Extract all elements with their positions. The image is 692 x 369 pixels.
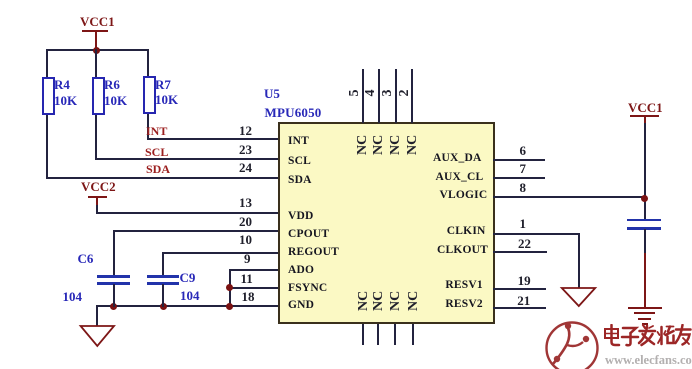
IC pin name REGOUT [288, 247, 339, 257]
node junction FSYNC [226, 284, 233, 291]
ground symbol right (triangle) [559, 286, 599, 310]
wire SDA to pin 24 [46, 177, 280, 179]
IC pin name CLKIN [447, 226, 486, 236]
pin number 18 [242, 292, 255, 302]
top pin 3 [395, 69, 397, 123]
IC U5 MPU6050 body [278, 122, 495, 324]
pin number 11 [241, 274, 253, 284]
node junction VLOGIC-VCC1 [641, 195, 648, 202]
glyph dian [612, 325, 620, 345]
IC pin name AUX_DA [433, 153, 481, 163]
IC pin name CLKOUT [437, 245, 488, 255]
pin number 23 [239, 145, 252, 155]
wire ADO pin 9 [229, 269, 279, 271]
resistor R4 [42, 77, 55, 115]
pin number 9 [244, 254, 251, 264]
capacitor C6 [97, 275, 130, 278]
wire CLKIN down to gnd [578, 233, 580, 288]
pin number 20 [239, 217, 252, 227]
value 104 (C6) [63, 291, 83, 302]
pin number 24 [239, 163, 252, 173]
wire bus top [46, 49, 150, 51]
pin number 22 [518, 239, 531, 249]
label R7 [155, 79, 171, 90]
top pin 2 [411, 69, 413, 123]
capacitor C right [627, 219, 662, 222]
pin number 21 [517, 296, 530, 306]
glyph fa [643, 325, 645, 328]
wire VCC1 right stem [644, 116, 646, 124]
watermark text chinese (drawn glyphs) [603, 324, 692, 351]
glyph zi [623, 328, 636, 333]
wire pin 19 stub [493, 288, 547, 290]
IC pin name RESV1 [445, 280, 482, 290]
pin label NC (top pin 3) [390, 135, 402, 155]
wire REGOUT pin 10 [162, 252, 279, 254]
value 10K (R6) [104, 95, 127, 106]
designator U5 [264, 88, 280, 99]
capacitor C9 [147, 275, 179, 278]
node junction C6-GND [110, 303, 117, 310]
power symbol VCC2 bar [88, 196, 107, 198]
wire VCC2 to VDD pin 13 [96, 205, 98, 214]
label C6 [78, 253, 94, 264]
wire column R6 [95, 49, 97, 160]
IC pin name ADO [288, 265, 314, 275]
label R4 [54, 79, 70, 90]
wire CPOUT pin 20 [113, 230, 280, 232]
node junction C9-GND [160, 303, 167, 310]
wire C6 top lead [113, 230, 115, 276]
pin number 1 [520, 219, 527, 229]
watermark text url [605, 353, 692, 368]
IC pin name SCL [288, 156, 311, 166]
wire FSYNC pin 11 [229, 287, 279, 289]
bottom pin 1 stub [362, 324, 364, 345]
wire pin 21 stub [493, 307, 547, 309]
power symbol VCC1 (left) stem [95, 31, 97, 50]
pin number 8 [520, 183, 527, 193]
node junction VCC1 bus [93, 47, 100, 54]
bottom pin 2 stub [377, 324, 379, 345]
wire SCL to pin 23 [95, 158, 279, 160]
wire pin 6 stub [493, 159, 545, 161]
pin number 6 [520, 146, 527, 156]
watermark logo circle [543, 318, 605, 369]
pin label NC (bottom pin b) [373, 291, 385, 311]
top pin 5 [362, 69, 364, 123]
IC pin name GND [288, 300, 314, 310]
wire GND pin 18 [96, 305, 279, 307]
IC pin name VDD [288, 211, 314, 221]
wire GND stem left [96, 305, 98, 326]
pin label NC (bottom pin a) [358, 291, 370, 311]
wire pin 8 VLOGIC to VCC1 [493, 196, 646, 198]
wire pin 1 CLKIN [493, 233, 580, 235]
IC pin name VLOGIC [440, 190, 488, 200]
pin label NC (bottom pin c) [390, 291, 402, 311]
IC pin name FSYNC [288, 283, 327, 293]
wire INT to pin 12 [147, 138, 279, 140]
net label INT [146, 126, 167, 136]
bottom pin 3 stub [394, 324, 396, 345]
net label SDA [146, 164, 170, 174]
resistor R6 [92, 77, 105, 115]
IC pin name SDA [288, 175, 312, 185]
pin number 13 [239, 198, 252, 208]
resistor R7 [143, 76, 156, 114]
pin number 10 [239, 235, 252, 245]
value 104 (C9) [180, 290, 200, 301]
glyph you [676, 328, 691, 331]
net label SCL [145, 147, 168, 157]
value 10K (R7) [155, 94, 178, 105]
power symbol VCC2 label [81, 182, 116, 192]
IC pin name AUX_CL [436, 172, 484, 182]
wire pin 22 stub [493, 251, 548, 253]
pin label NC (top pin 4) [373, 135, 385, 155]
label R6 [104, 79, 120, 90]
top pin 4 [378, 69, 380, 123]
pin label NC (top pin 5) [357, 135, 369, 155]
pin number 7 [520, 164, 527, 174]
wire cap to ground [644, 229, 646, 253]
wire column R4 [46, 49, 48, 179]
glyph shao [660, 327, 663, 344]
wire ADO/FSYNC down to GND net [229, 269, 231, 307]
wire pin 7 stub [493, 177, 545, 179]
power symbol VCC1 (right) label [628, 103, 663, 113]
power symbol VCC2 stem [96, 197, 98, 206]
pin label NC (top pin 2) [407, 135, 419, 155]
node junction ADO-GND [226, 303, 233, 310]
power symbol VCC1 (left) label [80, 17, 115, 27]
bottom pin 4 stub [412, 324, 414, 345]
power symbol VCC1 (left) bar [82, 30, 108, 32]
label C9 [180, 272, 196, 283]
value 10K (R4) [54, 95, 77, 106]
power symbol VCC1 (right) bar [630, 115, 659, 117]
pin number 12 [239, 126, 252, 136]
part number MPU6050 [265, 107, 322, 118]
IC pin name CPOUT [288, 229, 329, 239]
wire C9 top lead [162, 252, 164, 277]
pin number 19 [518, 276, 531, 286]
pin label NC (bottom pin d) [408, 291, 420, 311]
IC pin name INT [288, 136, 309, 146]
IC pin name RESV2 [445, 299, 482, 309]
wire column R7 [147, 49, 149, 140]
ground symbol right (earth bars) [628, 307, 662, 309]
ground symbol left (triangle) [78, 324, 118, 350]
